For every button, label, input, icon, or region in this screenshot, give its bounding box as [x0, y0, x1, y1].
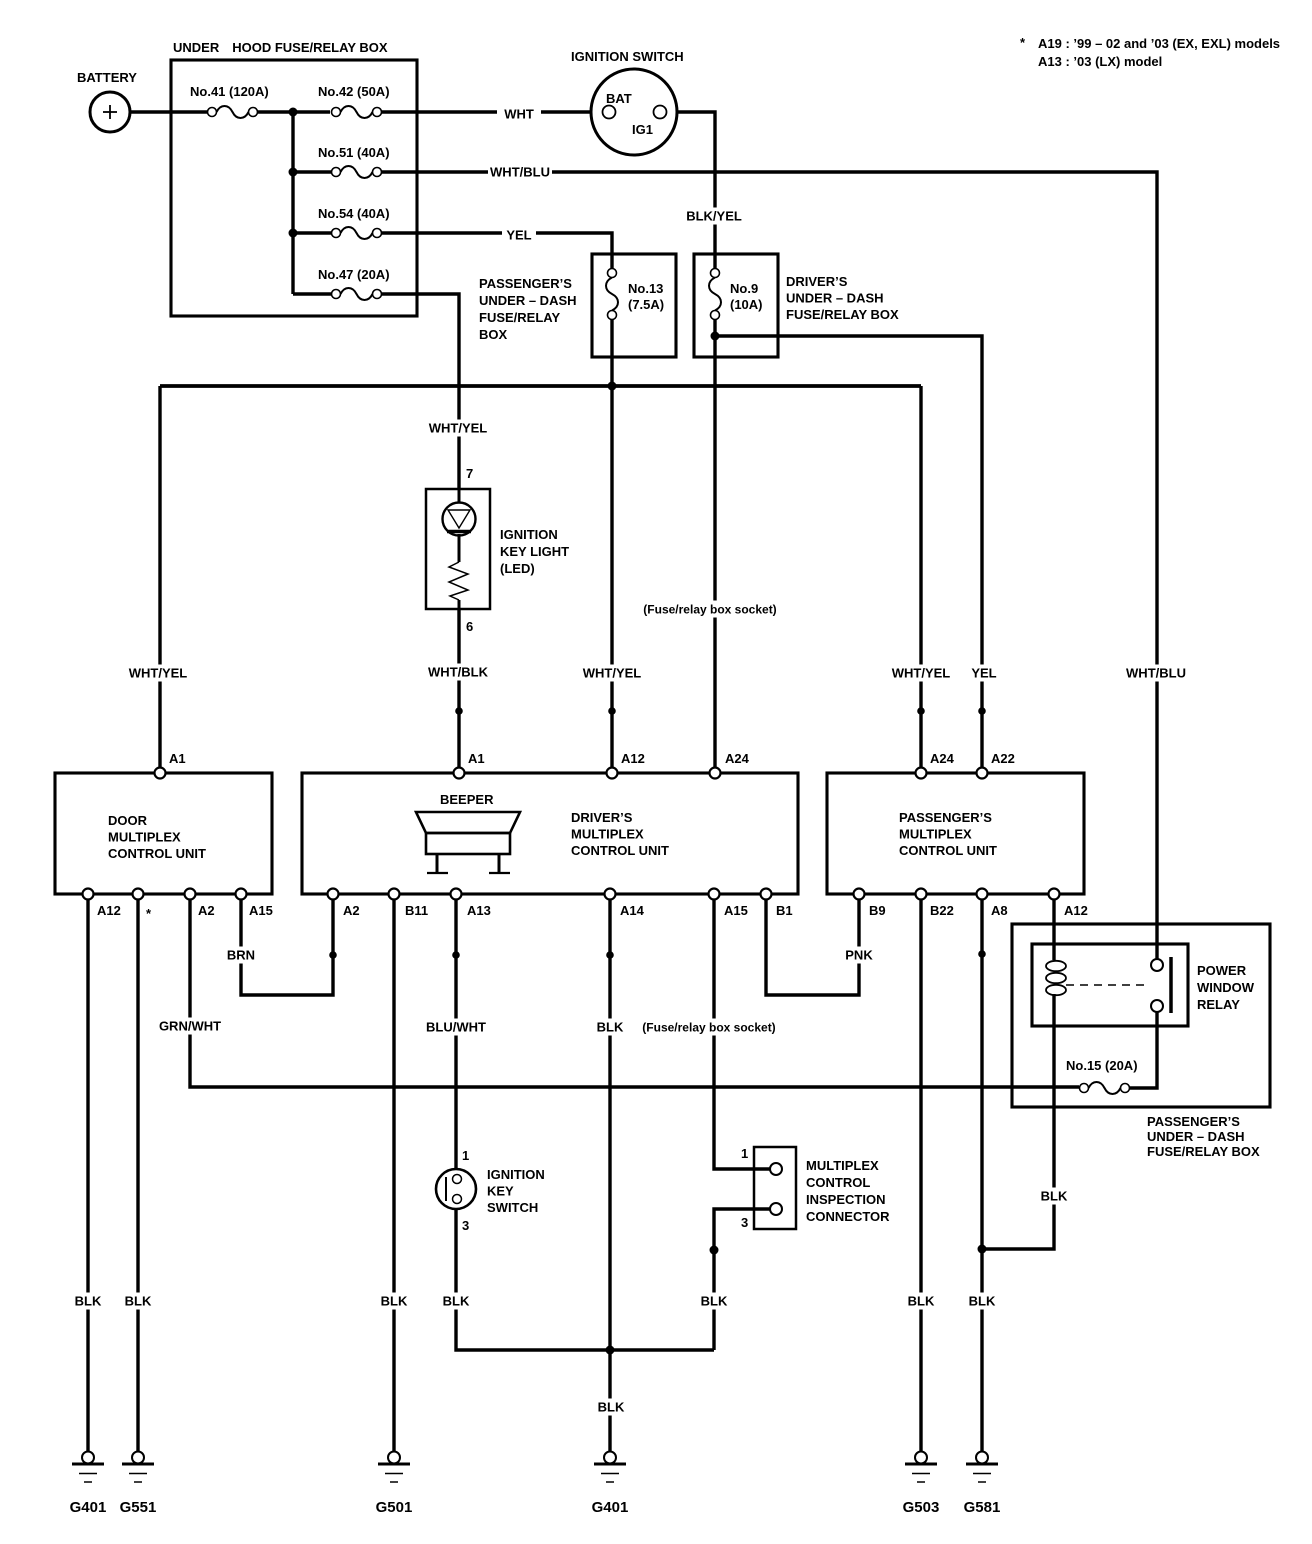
svg-text:No.54 (40A): No.54 (40A) — [318, 206, 390, 221]
svg-text:BLK: BLK — [1041, 1189, 1068, 1204]
svg-text:DRIVER’S: DRIVER’S — [571, 810, 633, 825]
svg-text:A22: A22 — [991, 751, 1015, 766]
svg-text:IGNITION SWITCH: IGNITION SWITCH — [571, 49, 684, 64]
svg-text:(7.5A): (7.5A) — [628, 297, 664, 312]
svg-text:CONTROL UNIT: CONTROL UNIT — [571, 843, 669, 858]
svg-text:A15: A15 — [249, 903, 273, 918]
svg-text:MULTIPLEX: MULTIPLEX — [108, 830, 181, 845]
svg-text:A15: A15 — [724, 903, 748, 918]
svg-text:BLK/YEL: BLK/YEL — [686, 209, 742, 224]
svg-text:PASSENGER’S: PASSENGER’S — [479, 276, 572, 291]
svg-text:G401: G401 — [70, 1499, 107, 1516]
svg-text:A2: A2 — [198, 903, 215, 918]
svg-text:G551: G551 — [120, 1499, 157, 1516]
svg-text:BLK: BLK — [381, 1294, 408, 1309]
svg-text:BLK: BLK — [443, 1294, 470, 1309]
svg-text:WINDOW: WINDOW — [1197, 980, 1255, 995]
svg-text:BLK: BLK — [969, 1294, 996, 1309]
svg-text:KEY: KEY — [487, 1184, 514, 1199]
svg-text:No.41 (120A): No.41 (120A) — [190, 84, 269, 99]
svg-text:A1: A1 — [468, 751, 485, 766]
svg-text:(10A): (10A) — [730, 297, 763, 312]
svg-text:POWER: POWER — [1197, 963, 1247, 978]
svg-text:1: 1 — [741, 1146, 748, 1161]
svg-text:FUSE/RELAY: FUSE/RELAY — [479, 310, 560, 325]
svg-text:A1: A1 — [169, 751, 186, 766]
svg-text:DRIVER’S: DRIVER’S — [786, 274, 848, 289]
svg-text:A14: A14 — [620, 903, 645, 918]
svg-text:(Fuse/relay box socket): (Fuse/relay box socket) — [642, 1021, 775, 1035]
svg-text:B9: B9 — [869, 903, 886, 918]
svg-text:WHT/YEL: WHT/YEL — [583, 666, 642, 681]
svg-text:B11: B11 — [405, 903, 428, 918]
svg-text:No.42 (50A): No.42 (50A) — [318, 84, 390, 99]
svg-text:(Fuse/relay box socket): (Fuse/relay box socket) — [643, 603, 776, 617]
svg-text:G581: G581 — [964, 1499, 1001, 1516]
svg-text:No.15 (20A): No.15 (20A) — [1066, 1058, 1138, 1073]
svg-text:MULTIPLEX: MULTIPLEX — [571, 827, 644, 842]
svg-text:A8: A8 — [991, 903, 1008, 918]
svg-text:6: 6 — [466, 619, 473, 634]
svg-text:BRN: BRN — [227, 948, 255, 963]
svg-text:3: 3 — [741, 1215, 748, 1230]
svg-text:No.13: No.13 — [628, 281, 663, 296]
svg-text:A12: A12 — [1064, 903, 1088, 918]
svg-text:WHT/YEL: WHT/YEL — [129, 666, 188, 681]
svg-text:BLK: BLK — [75, 1294, 102, 1309]
svg-text:RELAY: RELAY — [1197, 997, 1240, 1012]
svg-text:GRN/WHT: GRN/WHT — [159, 1019, 221, 1034]
svg-text:WHT/BLU: WHT/BLU — [490, 165, 550, 180]
svg-text:CONNECTOR: CONNECTOR — [806, 1209, 890, 1224]
svg-text:BLK: BLK — [597, 1020, 624, 1035]
svg-text:FUSE/RELAY BOX: FUSE/RELAY BOX — [786, 307, 899, 322]
svg-text:WHT/BLK: WHT/BLK — [428, 665, 489, 680]
svg-text:BLK: BLK — [908, 1294, 935, 1309]
svg-text:3: 3 — [462, 1218, 469, 1233]
svg-text:BAT: BAT — [606, 91, 632, 106]
svg-text:No.47 (20A): No.47 (20A) — [318, 267, 390, 282]
svg-text:A12: A12 — [97, 903, 121, 918]
svg-text:G501: G501 — [376, 1499, 413, 1516]
svg-text:WHT/YEL: WHT/YEL — [429, 421, 488, 436]
svg-text:BLK: BLK — [701, 1294, 728, 1309]
svg-text:MULTIPLEX: MULTIPLEX — [806, 1158, 879, 1173]
svg-text:SWITCH: SWITCH — [487, 1200, 538, 1215]
svg-text:UNDER – DASH: UNDER – DASH — [479, 293, 577, 308]
svg-text:A13: A13 — [467, 903, 491, 918]
svg-text:IGNITION: IGNITION — [500, 527, 558, 542]
svg-text:INSPECTION: INSPECTION — [806, 1192, 885, 1207]
svg-text:PNK: PNK — [845, 948, 873, 963]
svg-text:IGNITION: IGNITION — [487, 1167, 545, 1182]
svg-text:BATTERY: BATTERY — [77, 70, 137, 85]
svg-text:A2: A2 — [343, 903, 360, 918]
svg-text:1: 1 — [462, 1148, 469, 1163]
svg-text:B1: B1 — [776, 903, 793, 918]
svg-text:WHT/YEL: WHT/YEL — [892, 666, 951, 681]
svg-text:UNDER HOOD FUSE/RELAY BOX: UNDER HOOD FUSE/RELAY BOX — [173, 40, 388, 55]
svg-text:UNDER – DASH: UNDER – DASH — [1147, 1129, 1245, 1144]
svg-text:MULTIPLEX: MULTIPLEX — [899, 827, 972, 842]
svg-text:PASSENGER’S: PASSENGER’S — [1147, 1114, 1240, 1129]
svg-text:A24: A24 — [930, 751, 955, 766]
svg-text:7: 7 — [466, 466, 473, 481]
svg-text:YEL: YEL — [506, 228, 531, 243]
svg-text:UNDER – DASH: UNDER – DASH — [786, 291, 884, 306]
svg-text:CONTROL UNIT: CONTROL UNIT — [108, 846, 206, 861]
svg-text:IG1: IG1 — [632, 122, 653, 137]
svg-text:YEL: YEL — [971, 666, 996, 681]
svg-text:A19 : ’99 – 02 and ’03 (EX, E: A19 : ’99 – 02 and ’03 (EX, EXL) models — [1038, 36, 1280, 51]
svg-text:G401: G401 — [592, 1499, 629, 1516]
svg-text:(LED): (LED) — [500, 561, 535, 576]
svg-text:BLK: BLK — [598, 1400, 625, 1415]
svg-text:WHT/BLU: WHT/BLU — [1126, 666, 1186, 681]
svg-text:PASSENGER’S: PASSENGER’S — [899, 810, 992, 825]
svg-text:DOOR: DOOR — [108, 813, 148, 828]
svg-text:KEY LIGHT: KEY LIGHT — [500, 544, 569, 559]
svg-text:FUSE/RELAY BOX: FUSE/RELAY BOX — [1147, 1144, 1260, 1159]
svg-text:BOX: BOX — [479, 327, 508, 342]
svg-text:BLU/WHT: BLU/WHT — [426, 1020, 486, 1035]
svg-text:CONTROL: CONTROL — [806, 1175, 870, 1190]
svg-text:No.51 (40A): No.51 (40A) — [318, 145, 390, 160]
svg-text:No.9: No.9 — [730, 281, 758, 296]
svg-text:A13 : ’03 (LX) model: A13 : ’03 (LX) model — [1038, 54, 1162, 69]
svg-text:BEEPER: BEEPER — [440, 792, 494, 807]
svg-text:G503: G503 — [903, 1499, 940, 1516]
svg-text:B22: B22 — [930, 903, 954, 918]
svg-text:CONTROL UNIT: CONTROL UNIT — [899, 843, 997, 858]
svg-text:A24: A24 — [725, 751, 750, 766]
svg-text:A12: A12 — [621, 751, 645, 766]
svg-text:WHT: WHT — [504, 107, 534, 122]
svg-text:BLK: BLK — [125, 1294, 152, 1309]
